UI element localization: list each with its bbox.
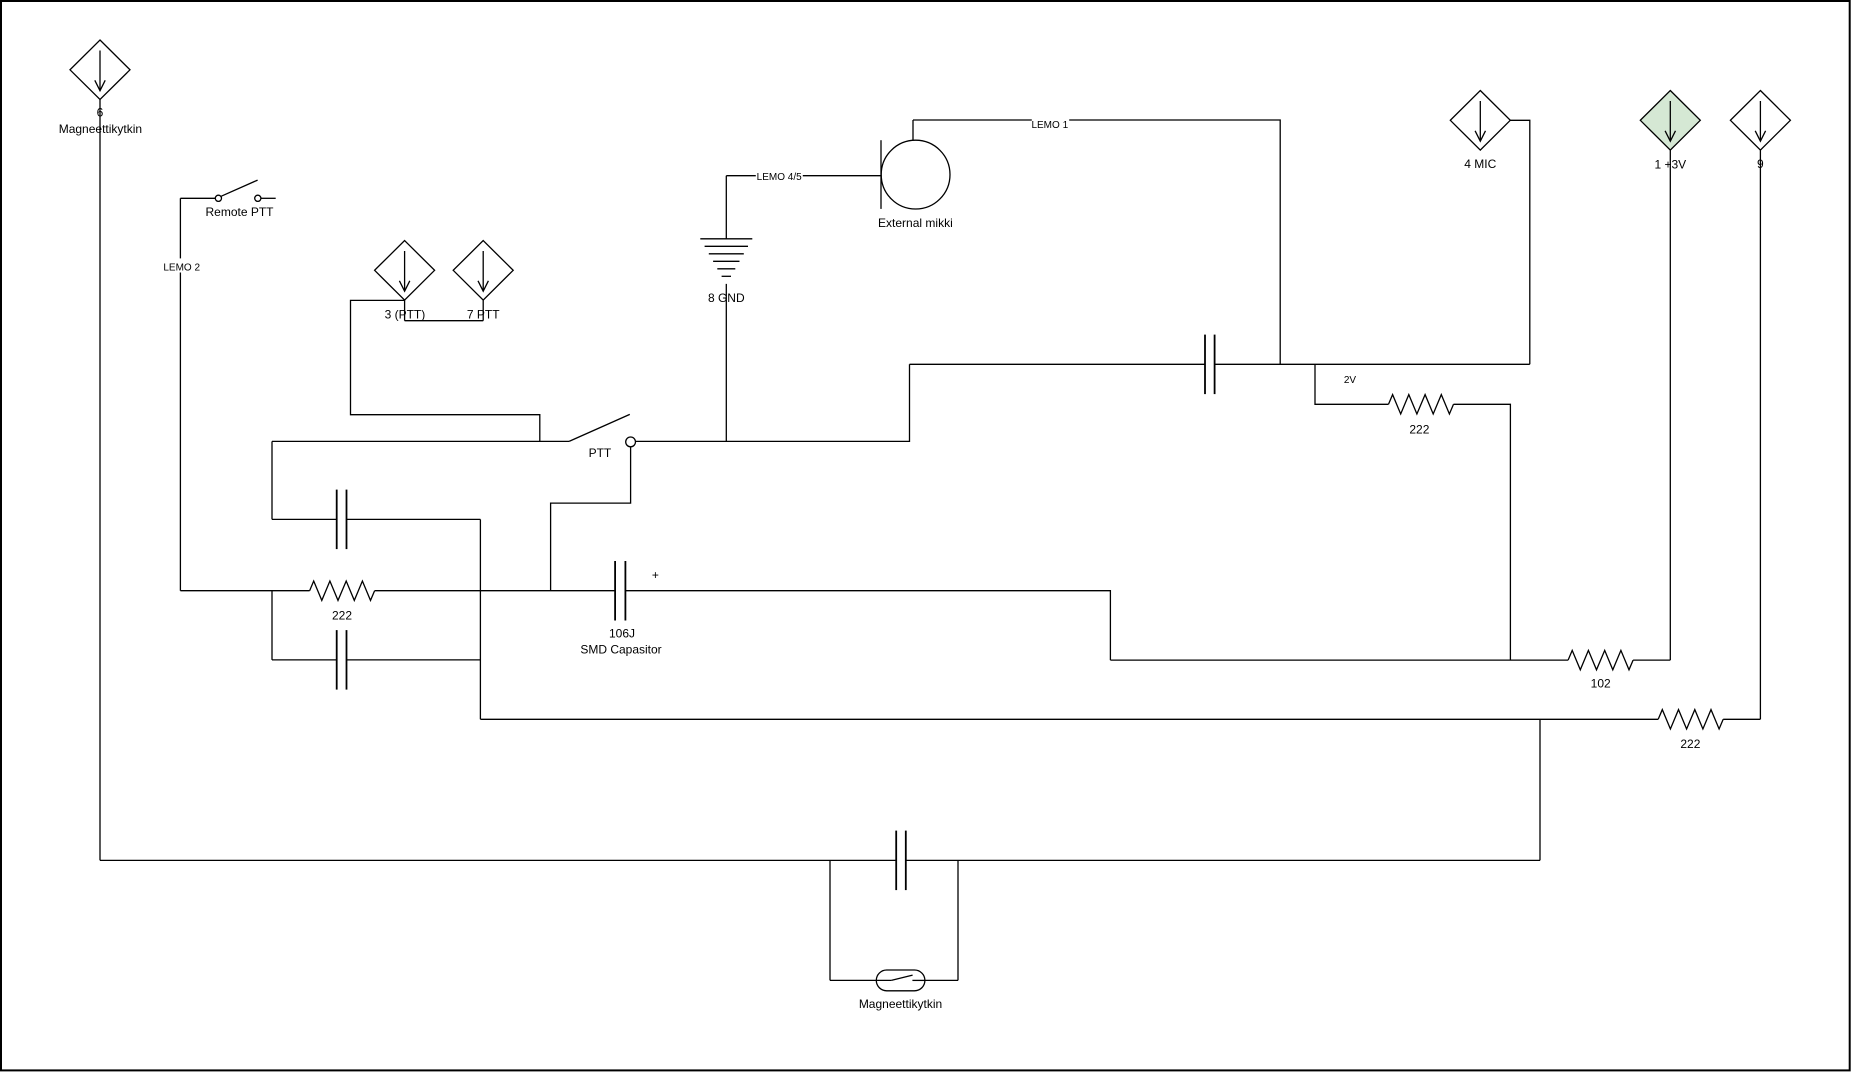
wire R3 to row-660 [1454, 404, 1511, 660]
wire mic top stub [912, 120, 914, 140]
wire bottom bus (right of capacitor) [906, 859, 1540, 861]
svg-text:LEMO 1: LEMO 1 [1031, 120, 1068, 131]
wire gnd lower to PTT row [725, 284, 727, 442]
capacitor C4 (lower left) [337, 630, 347, 690]
wire row-B left [272, 518, 337, 520]
wire PTT row right [636, 364, 910, 441]
svg-text:+: + [652, 568, 659, 582]
connector 1 +3V diamond (green) [1640, 91, 1700, 172]
wire 2V branch [1315, 364, 1389, 404]
wire reed loop bottom-right lead [925, 979, 958, 981]
wire reed loop left [829, 860, 831, 980]
svg-text:2V: 2V [1344, 375, 1357, 386]
wire gnd upper [725, 176, 727, 239]
net label LEMO 1 [1031, 117, 1069, 131]
wire row-C mid (R1 to C-106J) [375, 590, 615, 592]
reed switch Magneettikytkin (bottom) [859, 970, 942, 1011]
svg-text:External mikki: External mikki [878, 216, 953, 230]
svg-text:SMD Capasitor: SMD Capasitor [580, 643, 661, 657]
wire LEMO 1 horizontal [913, 120, 1280, 364]
capacitor C3 (upper left) [337, 490, 347, 549]
svg-text:PTT: PTT [589, 446, 612, 460]
capacitor C-bottom [896, 831, 906, 891]
net label LEMO 2 [163, 258, 201, 273]
svg-text:106J: 106J [609, 627, 635, 641]
wire remote-ptt left lead [180, 197, 215, 199]
resistor R4 102 [1568, 650, 1633, 690]
resistor R3 222 (2V row) [1389, 395, 1454, 437]
connector 4 MIC diamond [1450, 91, 1510, 172]
wire PTT row left [272, 440, 569, 442]
switch Remote PTT [205, 180, 275, 219]
wire bottom bus (left of capacitor) [100, 859, 896, 861]
wire row-364 left [910, 363, 1206, 365]
wire row-C left (LEMO2 to R1) [180, 590, 309, 592]
resistor R1 222 (left) [310, 581, 375, 623]
wire row-D right [347, 659, 481, 661]
svg-text:222: 222 [332, 609, 352, 623]
capacitor C2 106J SMD [580, 561, 661, 657]
wire row-660 (106J corner to R4) [1110, 659, 1568, 661]
wire left box top riser [271, 441, 273, 519]
capacitor C5 (mid) [1205, 335, 1215, 395]
wire pin9 lead [1759, 150, 1761, 719]
wire row-E left [480, 718, 1658, 720]
svg-text:LEMO 4/5: LEMO 4/5 [757, 172, 802, 183]
wire pin6 to bottom bus [99, 100, 101, 861]
wire R4 to +3V lead [1633, 659, 1670, 661]
svg-text:7 PTT: 7 PTT [467, 307, 500, 321]
svg-text:222: 222 [1409, 422, 1429, 436]
svg-text:LEMO 2: LEMO 2 [163, 262, 200, 273]
connector 7 PTT diamond [453, 241, 513, 322]
svg-text:102: 102 [1591, 677, 1611, 691]
net label LEMO 4/5 [756, 169, 803, 183]
wire +3V lead [1669, 150, 1671, 660]
wire LEMO 4/5 horizontal [726, 175, 881, 177]
svg-text:4 MIC: 4 MIC [1464, 157, 1496, 171]
svg-text:3 (PTT): 3 (PTT) [385, 307, 426, 321]
wire row-364 right [1215, 363, 1530, 365]
resistor R2 222 (bottom right) [1658, 710, 1723, 751]
wire left box mid riser [271, 591, 273, 660]
wire reed loop right [957, 860, 959, 980]
connector 9 diamond [1730, 91, 1790, 172]
switch PTT [569, 414, 635, 459]
svg-text:Magneettikytkin: Magneettikytkin [859, 997, 942, 1011]
wire long riser x480 [479, 519, 481, 719]
wire row-B right [347, 518, 481, 520]
wire 4MIC lead [1510, 120, 1530, 364]
microphone External mikki [878, 140, 953, 230]
svg-text:9: 9 [1757, 157, 1764, 171]
wire row-D left [272, 659, 337, 661]
ground 8 GND [700, 239, 752, 305]
svg-text:Remote PTT: Remote PTT [205, 205, 274, 219]
wire 3PTT bottom harness [405, 300, 484, 321]
wire PTT pole branch [551, 447, 631, 591]
wire row-C right (C-106J to corner) [625, 591, 1110, 660]
wire LEMO 2 vertical [179, 198, 181, 590]
connector 6 Magneettikytkin (top-left diamond) [59, 40, 142, 136]
wire reed loop bottom-left lead [830, 979, 891, 981]
svg-text:222: 222 [1680, 737, 1700, 751]
wire row-E right [1723, 718, 1760, 720]
wire 3PTT to PTT switch [351, 300, 540, 441]
connector 3 (PTT) diamond [375, 241, 435, 322]
wire riser bottom-right [1539, 719, 1541, 860]
